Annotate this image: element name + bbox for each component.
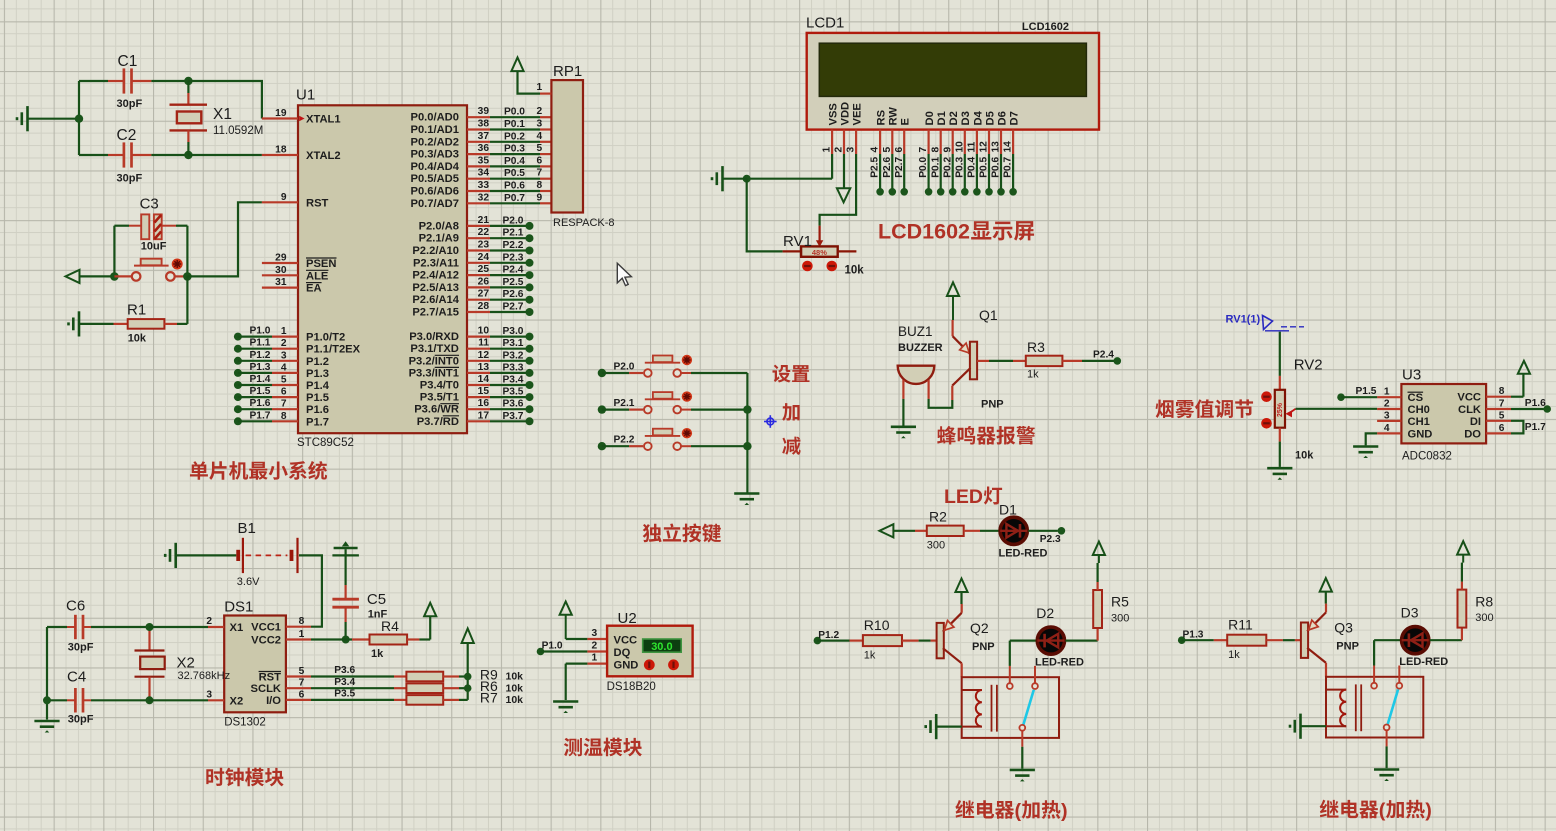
svg-text:10uF: 10uF [141, 240, 167, 252]
svg-text:Q3: Q3 [1334, 620, 1353, 636]
svg-text:VCC1: VCC1 [251, 622, 281, 634]
button actuator icon [172, 259, 183, 270]
svg-text:300: 300 [927, 540, 945, 552]
power terminal (Q1) [947, 282, 959, 320]
svg-text:3: 3 [281, 350, 287, 361]
svg-text:5: 5 [537, 143, 543, 154]
svg-text:PSEN: PSEN [306, 258, 336, 270]
wire arrow to button [80, 272, 132, 281]
transistor Q3 [1301, 604, 1359, 677]
svg-text:1k: 1k [1027, 369, 1039, 381]
LCD1 pin RW [882, 107, 900, 154]
svg-text:30pF: 30pF [117, 98, 143, 110]
potentiometer RV1 [783, 233, 865, 276]
U3 chip body [1401, 367, 1486, 463]
svg-text:R1: R1 [127, 301, 146, 318]
svg-text:P3.4: P3.4 [503, 375, 524, 386]
DS1 chip body [224, 599, 286, 729]
svg-text:3.6V: 3.6V [237, 576, 260, 588]
svg-text:LED-RED: LED-RED [1035, 657, 1084, 669]
ground (U2) [553, 702, 578, 714]
U3 pin DO [1464, 423, 1511, 441]
svg-text:25: 25 [478, 264, 490, 275]
svg-text:P1.1: P1.1 [250, 338, 271, 349]
svg-text:6: 6 [1499, 423, 1505, 434]
U1 pin P0.7 to RP1 [410, 192, 551, 210]
resistor R6 [394, 678, 523, 694]
relay NO contact [1396, 666, 1402, 689]
svg-text:10: 10 [954, 141, 965, 153]
svg-text:P2.4: P2.4 [1093, 350, 1114, 361]
ground (clock module) [34, 721, 59, 733]
wire P3.4 to R6 [311, 677, 394, 688]
svg-text:300: 300 [1475, 612, 1493, 624]
svg-text:U1: U1 [296, 87, 315, 104]
svg-text:C1: C1 [118, 53, 138, 70]
svg-text:PNP: PNP [981, 399, 1004, 411]
svg-text:6: 6 [894, 147, 905, 153]
svg-text:1: 1 [822, 147, 833, 153]
mouse cursor [617, 263, 631, 285]
LCD1 pin RS [870, 109, 888, 154]
LCD1 pin D6 [991, 111, 1009, 154]
resistor R3 [989, 339, 1114, 381]
relay moving contact to ground [1019, 725, 1025, 769]
wire VCC2 to R4 [311, 638, 370, 640]
caption plus [782, 403, 799, 421]
svg-text:R2: R2 [929, 509, 947, 525]
svg-text:7: 7 [918, 147, 929, 153]
wire button bus [743, 373, 751, 493]
svg-text:ADC0832: ADC0832 [1402, 451, 1452, 463]
relay box [962, 677, 1059, 738]
svg-text:38: 38 [478, 119, 490, 130]
svg-text:6: 6 [281, 387, 287, 398]
svg-text:6: 6 [537, 155, 543, 166]
svg-text:P3.0/RXD: P3.0/RXD [409, 331, 459, 343]
battery B1 [236, 520, 297, 588]
svg-text:8: 8 [1499, 386, 1505, 397]
svg-text:RW: RW [888, 107, 900, 126]
U1 pin P0.3 to RP1 [410, 143, 551, 161]
U1 pin P0.1 to RP1 [410, 119, 551, 137]
svg-text:): ) [1061, 800, 1068, 822]
svg-text:15: 15 [478, 386, 490, 397]
capacitor C2 [79, 127, 188, 185]
LCD1 pin D3 [954, 111, 972, 154]
crystal X2 [135, 627, 231, 700]
caption set [772, 365, 809, 383]
wire probe to RV2 [1279, 332, 1281, 390]
svg-text:10k: 10k [1295, 450, 1314, 462]
power terminal (U3 VCC) [1511, 361, 1530, 397]
svg-text:DQ: DQ [614, 647, 631, 659]
svg-text:RP1: RP1 [553, 63, 582, 80]
svg-text:D5: D5 [984, 111, 996, 125]
DS1 pin SCLK [251, 678, 311, 696]
U1 pin P3.4 net label [420, 374, 534, 392]
svg-text:4: 4 [537, 131, 543, 142]
svg-text:P2.0: P2.0 [614, 362, 635, 373]
wire RV2 to ground [1279, 428, 1281, 467]
svg-text:P2.1/A9: P2.1/A9 [419, 233, 459, 245]
svg-text:P2.1: P2.1 [503, 228, 524, 239]
svg-text:30pF: 30pF [68, 714, 94, 726]
U1 pin P0.4 to RP1 [410, 155, 551, 173]
pullup bus and power [462, 629, 474, 700]
crystal X1 [170, 77, 264, 159]
caption LCD1602 display [878, 220, 1034, 244]
svg-text:37: 37 [478, 131, 490, 142]
svg-text:P2.2: P2.2 [614, 435, 635, 446]
caption relay heating [1320, 800, 1432, 822]
svg-text:C2: C2 [117, 127, 137, 144]
svg-text:R7: R7 [480, 690, 498, 706]
U1 pin P1.1 with net stub [234, 338, 361, 356]
svg-text:P2.6: P2.6 [503, 289, 524, 300]
svg-text:P2.0/A8: P2.0/A8 [419, 220, 459, 232]
svg-text:D1: D1 [999, 502, 1017, 518]
caption temperature module [564, 738, 642, 757]
svg-text:P3.7: P3.7 [503, 411, 524, 422]
push button P2.1 [598, 391, 748, 413]
U1 pin ALE [262, 265, 329, 283]
svg-text:D0: D0 [924, 111, 936, 125]
svg-text:27: 27 [478, 289, 490, 300]
RV2 adjust icons [1261, 391, 1272, 428]
LCD net P0.5 [979, 154, 993, 196]
svg-text:7: 7 [1499, 399, 1505, 410]
U1 chip body [296, 87, 467, 450]
svg-text:VSS: VSS [828, 103, 840, 126]
svg-text:3: 3 [1384, 410, 1390, 421]
svg-text:1k: 1k [1228, 649, 1240, 661]
svg-text:3: 3 [537, 119, 543, 130]
resistor R10 [850, 617, 937, 662]
svg-text:PNP: PNP [972, 641, 995, 653]
svg-text:P0.7/AD7: P0.7/AD7 [410, 198, 459, 210]
relay box [1326, 677, 1423, 738]
svg-text:C6: C6 [66, 598, 85, 615]
U3 pin GND [1377, 423, 1432, 441]
reset button [132, 259, 175, 281]
crosshair cursor [764, 415, 777, 428]
svg-text:RST: RST [259, 672, 282, 684]
svg-text:7: 7 [281, 399, 287, 410]
caption smoke adjust [1155, 399, 1253, 418]
svg-text:10k: 10k [845, 264, 865, 276]
ground (left of R1) [69, 311, 80, 336]
U1 pin P2.5 net label [412, 276, 533, 294]
node P2.3 [1028, 527, 1065, 545]
U1 XTAL1 clock arrow [299, 116, 304, 122]
svg-text:P2.2/A10: P2.2/A10 [412, 245, 459, 257]
svg-text:P0.5/AD5: P0.5/AD5 [410, 173, 459, 185]
svg-text:3: 3 [206, 689, 212, 700]
svg-text:Q2: Q2 [970, 620, 989, 636]
svg-text:P3.2: P3.2 [503, 350, 524, 361]
svg-text:30.0: 30.0 [651, 641, 672, 653]
svg-text:P0.4: P0.4 [967, 157, 978, 178]
svg-text:33: 33 [478, 180, 490, 191]
svg-text:P1.4: P1.4 [306, 380, 330, 392]
RV1 adjust icons [802, 261, 837, 272]
U2 temperature display [643, 639, 682, 653]
svg-text:P0.5: P0.5 [504, 168, 525, 179]
U1 pin P2.4 net label [412, 264, 533, 282]
svg-text:1: 1 [1384, 387, 1390, 398]
svg-text:X1: X1 [230, 622, 244, 634]
ground (relay coil) [926, 714, 962, 739]
svg-text:I/O: I/O [266, 695, 281, 707]
svg-text:RV1(1): RV1(1) [1226, 314, 1261, 326]
svg-text:P0.1: P0.1 [930, 157, 941, 178]
LED D1 [999, 502, 1048, 560]
wire C1-C2 left vertical [75, 81, 83, 155]
svg-text:VCC: VCC [1457, 392, 1481, 404]
svg-text:P3.5/T1: P3.5/T1 [420, 392, 459, 404]
svg-text:34: 34 [478, 168, 490, 179]
svg-text:RV2: RV2 [1294, 357, 1323, 374]
svg-text:STC89C52: STC89C52 [297, 437, 354, 449]
svg-text:8: 8 [281, 411, 287, 422]
svg-text:DS1: DS1 [224, 599, 253, 616]
resistor R8 [1458, 563, 1494, 628]
svg-text:P0.0/AD0: P0.0/AD0 [410, 112, 459, 124]
svg-text:2: 2 [1384, 399, 1390, 410]
push button P2.2 [598, 428, 748, 450]
svg-text:39: 39 [478, 106, 490, 117]
U3 pin CLK [1458, 399, 1511, 417]
svg-text:CH1: CH1 [1408, 416, 1430, 428]
U3 pin VCC [1457, 386, 1511, 404]
U1 pin P1.5 with net stub [234, 386, 329, 404]
svg-text:P3.6: P3.6 [334, 665, 355, 676]
ground (relay contact) [1374, 770, 1399, 782]
svg-text:10k: 10k [506, 694, 524, 706]
power terminal (LED row) [879, 524, 893, 537]
svg-text:16: 16 [478, 398, 490, 409]
LCD1 pin VSS [822, 103, 840, 154]
wire buzzer to Q1 collector [929, 399, 953, 408]
capacitor C6 [47, 598, 208, 654]
svg-text:LED-RED: LED-RED [999, 548, 1048, 560]
svg-text:P0.3/AD3: P0.3/AD3 [410, 149, 459, 161]
svg-text:8: 8 [537, 180, 543, 191]
wire LCD VSS to ground [723, 154, 833, 183]
ground (battery B1) [165, 543, 236, 568]
svg-text:LCD1602: LCD1602 [878, 220, 970, 244]
svg-text:2: 2 [206, 616, 212, 627]
wire button to RST node [175, 202, 262, 280]
svg-text:13: 13 [478, 362, 490, 373]
svg-text:P0.4/AD4: P0.4/AD4 [410, 161, 459, 173]
svg-text:P2.2: P2.2 [503, 240, 524, 251]
LCD1 pin D1 [930, 111, 948, 154]
U1 pin P2.3 net label [413, 252, 534, 270]
svg-text:R4: R4 [381, 618, 399, 634]
U1 pin P2.0 net label [419, 215, 534, 233]
svg-text:18: 18 [275, 145, 287, 156]
svg-text:7: 7 [537, 168, 543, 179]
svg-text:8: 8 [930, 147, 941, 153]
U1 pin P0.0 to RP1 [410, 106, 551, 124]
U1 pin EA [262, 277, 322, 295]
svg-text:P1.5: P1.5 [1356, 386, 1377, 397]
RP1 resistor pack body [551, 63, 614, 229]
svg-text:P3.2/INT0: P3.2/INT0 [409, 355, 459, 367]
svg-text:P2.5: P2.5 [870, 157, 881, 178]
svg-text:P3.1: P3.1 [503, 338, 524, 349]
svg-text:P1.6: P1.6 [306, 404, 329, 416]
svg-text:P3.5: P3.5 [503, 387, 524, 398]
svg-text:P3.3: P3.3 [503, 362, 524, 373]
svg-text:2: 2 [834, 147, 845, 153]
U1 pin P1.4 with net stub [234, 374, 330, 392]
svg-text:35: 35 [478, 155, 490, 166]
svg-text:1k: 1k [864, 650, 876, 662]
svg-text:3: 3 [846, 147, 857, 153]
LCD net P0.6 [991, 154, 1005, 196]
U1 pin P3.1 net label [410, 338, 533, 356]
LCD1 pin D7 [1003, 111, 1021, 154]
transistor Q2 [937, 604, 995, 677]
relay core [992, 685, 997, 732]
svg-text:P1.2: P1.2 [250, 350, 271, 361]
DS1 pin VCC2 [251, 629, 311, 647]
svg-text:6: 6 [299, 689, 305, 700]
svg-text:E: E [900, 118, 912, 126]
svg-text:P3.5: P3.5 [334, 689, 355, 700]
svg-text:10k: 10k [506, 682, 524, 694]
svg-text:D3: D3 [1401, 605, 1419, 621]
LCD net P0.4 [967, 154, 981, 196]
wire U3 GND to ground [1366, 433, 1377, 445]
svg-text:1: 1 [299, 629, 305, 640]
U2 DS18B20 body [592, 610, 693, 693]
svg-text:P3.1/TXD: P3.1/TXD [410, 343, 459, 355]
svg-text:P1.0: P1.0 [542, 641, 563, 652]
svg-text:31: 31 [275, 277, 287, 288]
svg-text:GND: GND [1408, 428, 1433, 440]
push button P2.0 [598, 355, 748, 377]
svg-text:P2.6/A14: P2.6/A14 [412, 294, 459, 306]
svg-text:P1.3: P1.3 [1183, 629, 1204, 640]
svg-text:P3.4: P3.4 [334, 677, 355, 688]
svg-text:LED-RED: LED-RED [1399, 656, 1448, 668]
power terminal (U2) [560, 602, 608, 640]
LCD net P0.3 [954, 154, 968, 196]
wire ground node to RV1 [747, 179, 783, 252]
node P1.3 [1178, 629, 1214, 644]
svg-text:P2.7: P2.7 [503, 302, 524, 313]
svg-text:P1.7: P1.7 [250, 410, 271, 421]
capacitor C4 [47, 669, 208, 726]
svg-text:D4: D4 [972, 110, 984, 125]
svg-text:4: 4 [870, 147, 881, 153]
svg-text:P0.2: P0.2 [942, 157, 953, 178]
power terminal (Q3) [1320, 578, 1332, 604]
svg-text:P2.3: P2.3 [1040, 534, 1061, 545]
relay core [1356, 684, 1361, 731]
svg-text:1: 1 [537, 82, 543, 93]
relay coil [1326, 690, 1346, 727]
svg-text:X2: X2 [230, 695, 244, 707]
svg-text:12: 12 [478, 350, 490, 361]
wire C6-C4 left vertical to ground [43, 627, 51, 720]
svg-text:SCLK: SCLK [251, 683, 281, 695]
svg-text:30pF: 30pF [117, 173, 143, 185]
node P2.4 [1093, 350, 1121, 365]
svg-text:11: 11 [967, 141, 978, 152]
svg-text:3: 3 [592, 628, 598, 639]
wire D3 to R8 [1430, 628, 1462, 641]
svg-text:P2.3/A11: P2.3/A11 [413, 257, 459, 269]
svg-text:P1.5: P1.5 [306, 392, 329, 404]
LCD net P0.1 [930, 154, 944, 196]
LCD1 pin E [894, 118, 912, 155]
U3 pin CH0 [1377, 399, 1430, 417]
U1 pin P2.7 net label [412, 301, 533, 319]
ground (buttons) [734, 494, 759, 506]
svg-text:D3: D3 [960, 111, 972, 125]
svg-text:32.768kHz: 32.768kHz [178, 670, 231, 682]
svg-text:D2: D2 [1036, 605, 1054, 621]
svg-text:P0.6: P0.6 [504, 181, 525, 192]
U3 pin CH1 [1377, 410, 1430, 428]
U1 pin P0.2 to RP1 [410, 131, 551, 149]
wire P3.5 to R7 [311, 689, 394, 700]
caption LED lamp [944, 486, 1002, 508]
svg-text:P3.0: P3.0 [503, 326, 524, 337]
node P1.0 [537, 641, 607, 656]
ground (RV2) [1267, 468, 1292, 480]
LCD1 display body [806, 15, 1099, 130]
svg-text:P0.3: P0.3 [504, 144, 525, 155]
LCD1 pin D0 [918, 111, 936, 154]
resistor R11 [1214, 617, 1301, 662]
svg-text:EA: EA [306, 283, 322, 295]
caption buzzer alarm [937, 426, 1035, 445]
resistor R2 [893, 509, 999, 552]
svg-text:DO: DO [1464, 428, 1481, 440]
power terminal (Q2) [955, 579, 967, 605]
caption clock module [206, 768, 283, 787]
svg-text:P0.7: P0.7 [1003, 157, 1014, 178]
U1 pin P1.3 with net stub [234, 362, 329, 380]
svg-text:P1.5: P1.5 [250, 386, 271, 397]
relay switch blade [1023, 690, 1034, 725]
svg-text:P3.7/RD: P3.7/RD [417, 416, 459, 428]
capacitor C1 [79, 53, 188, 110]
svg-text:P2.4: P2.4 [503, 265, 524, 276]
svg-text:22: 22 [478, 227, 490, 238]
node P1.5 [1337, 386, 1377, 401]
ground (LCD VSS) [712, 166, 723, 191]
U1 pin P3.3 net label [409, 362, 534, 380]
DS1 pin VCC1 [251, 616, 311, 634]
ground (buzzer) [891, 427, 916, 439]
U3 pin CS [1377, 387, 1423, 405]
wire buzzer to ground [902, 399, 904, 426]
svg-text:C3: C3 [140, 196, 159, 213]
wire LCD VEE to RV1 wiper [816, 154, 856, 247]
LCD VDD power down arrow [837, 154, 850, 202]
svg-text:P2.1: P2.1 [614, 398, 635, 409]
svg-text:Q1: Q1 [979, 307, 998, 323]
LCD1 pin VEE [846, 103, 864, 154]
svg-text:CH0: CH0 [1408, 404, 1430, 416]
